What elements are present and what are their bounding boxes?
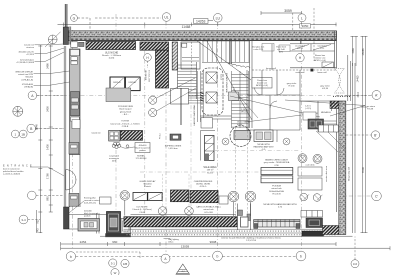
- svg-text:HANGING BACK WALL: HANGING BACK WALL: [193, 103, 196, 125]
- leader diagonals: [230, 89, 320, 122]
- svg-text:-5/20-1-: -5/20-1-: [199, 186, 207, 188]
- svg-text:+12,55 B: +12,55 B: [26, 54, 35, 56]
- stair railing verticals: [198, 71, 204, 122]
- top dimension line 11468: [58, 23, 337, 30]
- stair L-wall hatch vertical: [156, 50, 169, 88]
- svg-text:1430: 1430: [45, 144, 49, 150]
- svg-text:+12,54/08+12,60/08: +12,54/08+12,60/08: [16, 62, 35, 64]
- svg-text:9=1-5: 9=1-5: [207, 172, 213, 174]
- svg-text:400x400 anti-refl.: 400x400 anti-refl.: [19, 51, 35, 54]
- cloud x-box 1: [206, 72, 217, 83]
- vestibule side walls: [97, 213, 100, 234]
- grid row mid: [215, 150, 300, 152]
- svg-text:SALE AREA: SALE AREA: [203, 166, 217, 169]
- left dim ticks: [38, 46, 53, 233]
- svg-text:MEDAILLE: MEDAILLE: [321, 111, 332, 114]
- svg-text:895: 895: [45, 196, 49, 201]
- spotlight circle 2: [149, 88, 196, 117]
- grid line col 1: [72, 30, 74, 250]
- leader arrows to no-stone note: [285, 100, 365, 116]
- bottom-left column: [64, 207, 70, 229]
- svg-text:1760: 1760: [45, 173, 49, 179]
- svg-text:443: 443: [37, 228, 40, 233]
- wardrobe dark cluster: [308, 119, 345, 152]
- svg-text:+ safe 417.6: + safe 417.6: [253, 49, 263, 51]
- bubble b2: [213, 251, 223, 261]
- hanging cloud: [230, 126, 251, 147]
- grid line col 3: [217, 22, 219, 250]
- svg-text:ULS NICHE: ULS NICHE: [144, 70, 146, 81]
- landing room box: [171, 89, 189, 105]
- svg-text:AP4/5 (+0,4): AP4/5 (+0,4): [314, 59, 326, 62]
- curtain scallop: [228, 63, 250, 68]
- svg-text:1,010 dcm: 1,010 dcm: [168, 148, 178, 150]
- grid bubble C': [372, 191, 382, 201]
- pendant sphere 1: [120, 191, 130, 216]
- grid bubble UL: [162, 13, 171, 22]
- bubble A bottom: [161, 254, 170, 263]
- svg-text:former wall: former wall: [266, 68, 276, 70]
- svg-text:natural oak: natural oak: [271, 187, 282, 190]
- grid row C': [340, 195, 372, 197]
- storefront glass line: [64, 46, 66, 214]
- leader dashes from G: [78, 18, 91, 30]
- svg-text:5-1.5: 5-1.5: [320, 48, 324, 50]
- svg-text:(7/8 AL/B): (7/8 AL/B): [24, 86, 33, 89]
- svg-text:E N T R A N C E: E N T R A N C E: [3, 165, 32, 168]
- car door back wall text: [196, 206, 222, 214]
- glazing extra note: [19, 51, 35, 57]
- exterior facade note: [221, 236, 282, 242]
- svg-text:3059: 3059: [284, 9, 292, 13]
- svg-text:2450: 2450: [45, 106, 49, 112]
- entrance side element: [121, 219, 131, 234]
- chevrier text: [194, 181, 213, 188]
- grid row mid2: [140, 171, 296, 173]
- svg-text:(+1,15): (+1,15): [305, 108, 311, 110]
- svg-text:ULS NICHE: ULS NICHE: [105, 52, 119, 55]
- left party-wall column: [65, 4, 67, 28]
- grid bubble B': [346, 131, 380, 139]
- pendant sphere 3: [245, 191, 256, 216]
- grid row A: [37, 94, 373, 96]
- svg-text:501-05: 501-05: [297, 48, 303, 50]
- svg-text:(07/8-AL1-B): (07/8-AL1-B): [22, 78, 34, 81]
- facade dots row 2: [127, 234, 337, 236]
- svg-text:H 0,45 B: H 0,45 B: [272, 193, 281, 195]
- svg-text:WINDOW DISPLAY: WINDOW DISPLAY: [15, 71, 33, 74]
- shoe wall hatch row 1: [171, 190, 189, 202]
- svg-text:door in natural iron: door in natural iron: [3, 168, 20, 171]
- svg-text:grey niche: grey niche: [287, 82, 297, 85]
- svg-text:center wall: center wall: [295, 71, 305, 74]
- svg-text:C': C': [375, 195, 378, 199]
- cash counter boxes: [298, 167, 322, 176]
- svg-text:cash desk: cash desk: [305, 165, 314, 167]
- led lighting callout: [164, 238, 179, 244]
- svg-text:VE-03#: VE-03#: [241, 112, 249, 114]
- dash from b: [76, 255, 296, 257]
- corner hatch: [323, 226, 339, 235]
- svg-text:GLASS DISPLAY: GLASS DISPLAY: [139, 180, 156, 183]
- svg-text:drawer use: drawer use: [257, 82, 268, 85]
- svg-text:3-4: 3-4: [21, 218, 26, 222]
- fitting room texts: [237, 82, 331, 126]
- svg-text:1586: 1586: [352, 48, 355, 54]
- svg-text:14460: 14460: [357, 75, 360, 82]
- svg-text:40 lb: 40 lb: [112, 161, 117, 163]
- svg-text:0,0x0,0: 0,0x0,0: [220, 74, 222, 80]
- entrance note: [3, 165, 32, 176]
- left dim labels: [35, 63, 50, 233]
- pillar leader + existing pillar text: [69, 201, 84, 213]
- top wall bottom edge: [69, 40, 337, 42]
- svg-text:L: L: [301, 16, 303, 20]
- svg-text:H 3,38: H 3,38: [367, 109, 374, 111]
- glass display text: [139, 180, 156, 188]
- grid bubble H2: [296, 54, 304, 62]
- svg-text:grey suede - TESSILMODA: grey suede - TESSILMODA: [264, 161, 290, 164]
- svg-text:natural iron 8 PB: natural iron 8 PB: [18, 73, 34, 76]
- stair bottom rails: [200, 116, 232, 119]
- bottom facade dotted strip: [124, 229, 337, 233]
- svg-text:natural oak - 8 levels - L.700: natural oak - 8 levels - L.700mm: [110, 122, 140, 125]
- stair diagonals: [196, 40, 251, 80]
- dash leaders from left bubbles: [36, 95, 64, 195]
- niche column enclosure: [238, 204, 251, 231]
- bubble b: [66, 252, 75, 261]
- svg-text:LU: LU: [216, 16, 221, 20]
- niche end wall: [205, 136, 215, 161]
- landing rails horizontal: [181, 92, 204, 103]
- biases crew text: [264, 159, 290, 167]
- right wall speckled band: [339, 101, 346, 235]
- svg-text:B'stock: B'stock: [144, 185, 152, 188]
- svg-text:DISPLAY: DISPLAY: [129, 81, 138, 84]
- svg-text:natural iron: natural iron: [24, 43, 34, 46]
- strongbox notes row: [252, 46, 286, 54]
- svg-text:W: W: [114, 271, 117, 275]
- wall x272: [271, 44, 273, 70]
- hanging fixture gray: [234, 131, 250, 140]
- bubble 3-0: [351, 237, 359, 268]
- podium text: [269, 186, 285, 196]
- svg-text:11468: 11468: [182, 25, 191, 29]
- left dim outer line: [39, 45, 41, 233]
- svg-text:- B-5 -: - B-5 -: [123, 114, 129, 116]
- top right v-dim pair: [351, 36, 359, 66]
- grid line col 4: [301, 22, 303, 250]
- stair L-wall hatch horizontal: [140, 42, 169, 50]
- hanging icons: [112, 142, 135, 148]
- svg-text:natural iron: natural iron: [91, 132, 100, 135]
- former wall dashed: [252, 69, 337, 71]
- podium rect 1: [261, 168, 293, 175]
- stair flight 2 treads: [178, 62, 197, 99]
- svg-text:natural oak: natural oak: [203, 208, 214, 211]
- svg-text:AP/5: AP/5: [279, 50, 283, 53]
- svg-text:1510: 1510: [357, 92, 360, 98]
- revision cloud: [202, 68, 223, 115]
- grid bubble LU: [214, 13, 223, 22]
- flower box cells: [290, 44, 335, 68]
- svg-text:b: b: [70, 255, 72, 259]
- cash area spotlights: [298, 154, 322, 202]
- svg-text:laminated glass: laminated glass: [20, 59, 34, 62]
- svg-text:8940: 8940: [35, 124, 39, 130]
- svg-text:PS 0-4: PS 0-4: [160, 134, 162, 140]
- svg-text:13059: 13059: [181, 244, 190, 248]
- right entry door arcs: [335, 55, 351, 101]
- survey diamond: [13, 106, 23, 116]
- wardrobe boxes row: [319, 125, 339, 132]
- small fixture right of totem: [160, 134, 182, 141]
- svg-text:exterior facade filled with cl: exterior facade filled with cladding of …: [221, 236, 282, 239]
- svg-text:14263: 14263: [196, 19, 206, 23]
- sale wall edge: [180, 88, 181, 125]
- svg-text:3 levels L.1300: 3 levels L.1300: [148, 70, 150, 82]
- svg-text:BIASES CREW COACH: BIASES CREW COACH: [265, 159, 288, 162]
- laminated glass note: [16, 59, 35, 65]
- fitting room walls: [247, 70, 300, 130]
- svg-text:932: 932: [37, 219, 40, 224]
- totem fixture: [109, 130, 143, 141]
- stair wall vertical band: [172, 42, 177, 70]
- left dim inner line: [50, 45, 52, 212]
- bubbles 1 and 1B: [11, 130, 27, 138]
- bottom dim line 2: [61, 244, 390, 250]
- grid bubble B: [27, 124, 36, 133]
- svg-text:counter desk area: counter desk area: [325, 165, 328, 182]
- svg-text:podium: podium: [139, 150, 146, 152]
- svg-text:2480: 2480: [45, 63, 49, 69]
- lux niche bottom text: [132, 207, 152, 214]
- svg-text:glossy finish: glossy finish: [120, 111, 132, 113]
- entrance portal dark block: [107, 212, 121, 234]
- room divider: [301, 101, 337, 132]
- top wall tick finish: [71, 38, 336, 40]
- svg-text:C/18-B: C/18-B: [122, 126, 129, 128]
- svg-text:(+/-2001.2+4040/2): (+/-2001.2+4040/2): [3, 174, 20, 176]
- svg-text:H 3,30: H 3,30: [322, 88, 329, 90]
- niche hanging text: [254, 144, 275, 151]
- spot pair bottom center: [158, 207, 193, 216]
- svg-text:(C03): (C03): [109, 58, 115, 60]
- benchmark triangle: [176, 264, 190, 274]
- stair side wall: [230, 39, 232, 64]
- cloud x-box 2: [206, 92, 217, 103]
- svg-text:37C-8/8 B-4: 37C-8/8 B-4: [136, 158, 148, 160]
- svg-text:1/B: 1/B: [123, 262, 127, 266]
- grid bubble G: [71, 15, 78, 22]
- display cabinet pair top: [110, 77, 140, 91]
- svg-text:C/30: C/30: [274, 165, 279, 167]
- grid bubble A': [337, 91, 382, 100]
- right dim line pair: [361, 36, 368, 233]
- lift shaft room: [181, 42, 200, 215]
- partial dashed line x116: [115, 14, 117, 230]
- svg-text:Y-2,5/17-B: Y-2,5/17-B: [246, 240, 257, 242]
- svg-text:C/6-B: C/6-B: [139, 212, 145, 214]
- svg-text:139 m²: 139 m²: [207, 169, 214, 172]
- benchmark circle left of column: [45, 32, 61, 47]
- svg-text:TOTEM: TOTEM: [121, 121, 129, 123]
- grid row B left: [36, 128, 65, 130]
- grid bubble 3-4: [19, 215, 40, 224]
- svg-text:black lacquer: black lacquer: [119, 108, 132, 111]
- shoe wall hatch row 2: [190, 191, 218, 203]
- door threshold dots: [333, 96, 351, 98]
- right wall inner face: [336, 101, 338, 212]
- corner dark bar: [302, 231, 324, 236]
- fitting room door arcs: [255, 88, 285, 96]
- svg-text:3050: 3050: [302, 24, 309, 28]
- svg-text:-C-2-: -C-2-: [261, 149, 266, 151]
- entrance threshold dark bar: [106, 234, 131, 237]
- superglosses text: [165, 145, 182, 150]
- entrance door arcs: [66, 170, 77, 191]
- flower box room walls: [290, 31, 337, 68]
- svg-text:UL: UL: [164, 16, 168, 20]
- totem text: [110, 121, 140, 128]
- partial dashed line x144.8: [144, 24, 146, 215]
- glass display cases: [133, 193, 162, 201]
- svg-text:B': B': [374, 134, 377, 138]
- bottom dim line 1: [61, 240, 336, 246]
- svg-text:475/63-AL/B: 475/63-AL/B: [22, 83, 34, 86]
- moran podium text: [135, 143, 150, 153]
- svg-text:3-1: 3-1: [111, 261, 116, 265]
- pendant sphere 2: [228, 191, 239, 216]
- svg-text:4-5/+ B/6: 4-5/+ B/6: [204, 212, 213, 214]
- svg-text:b: b: [217, 255, 219, 259]
- podium rect 2: [261, 176, 293, 183]
- dashed stems through pendants: [236, 127, 248, 216]
- svg-text:A': A': [375, 94, 378, 98]
- lux niche text: [102, 52, 121, 60]
- label box 14263: [194, 19, 214, 24]
- small grid circles mid: [222, 138, 290, 145]
- bubbles 3-1 / 1B: [109, 259, 129, 275]
- bottom wall hatch band: [124, 217, 237, 227]
- svg-text:7000: 7000: [361, 166, 365, 173]
- svg-text:fitting lobby wall: fitting lobby wall: [348, 166, 351, 181]
- svg-text:2254: 2254: [80, 240, 87, 244]
- top wall concrete band: [69, 31, 337, 37]
- svg-text:former wall: former wall: [317, 71, 327, 74]
- svg-text:structure: structure: [26, 46, 35, 49]
- bottom edge line: [100, 235, 353, 237]
- svg-text:(C01-5/8-4.5): (C01-5/8-4.5): [84, 203, 96, 205]
- sale area text: [203, 166, 217, 175]
- grid bubble H: [144, 54, 152, 82]
- svg-text:grey niche: grey niche: [320, 85, 330, 88]
- entrance mat fixture: [78, 219, 100, 232]
- cash millwork row: [301, 211, 323, 228]
- svg-text:9608: 9608: [210, 240, 217, 244]
- svg-text:Power box: Power box: [257, 79, 268, 82]
- top right dimension 3059: [261, 8, 314, 61]
- svg-text:C85-1: C85-1: [168, 241, 174, 243]
- small cabinet left of lux niche: [71, 42, 78, 48]
- vestibule connector lines: [69, 215, 236, 230]
- right dim labels: [357, 48, 365, 173]
- grid bubble L top-right: [298, 14, 306, 22]
- podium view text: [118, 106, 134, 116]
- svg-text:G: G: [73, 17, 76, 21]
- svg-text:CAR DOOR BACK WALL: CAR DOOR BACK WALL: [196, 206, 222, 209]
- top wall inner gray band: [69, 37, 337, 41]
- grid bubble A: [28, 91, 37, 100]
- grid line col 2: [165, 22, 167, 253]
- svg-text:H 3,30: H 3,30: [288, 86, 295, 88]
- svg-text:PODIUM VIEW: PODIUM VIEW: [118, 106, 134, 108]
- svg-text:podium: podium: [84, 216, 91, 218]
- svg-text:no stone: no stone: [367, 105, 376, 108]
- svg-text:15086: 15086: [361, 48, 365, 56]
- svg-text:b: b: [300, 255, 302, 259]
- svg-text:PODIUM: PODIUM: [272, 186, 281, 188]
- window display note: [15, 71, 34, 82]
- site boundary double line: [353, 63, 356, 233]
- svg-text:1B: 1B: [21, 132, 25, 136]
- svg-text:Flower box: Flower box: [315, 54, 326, 57]
- small circle lower-left: [28, 191, 37, 200]
- power box callout: [252, 78, 272, 89]
- suspended mannequin text: [109, 156, 119, 163]
- small label box near entrance: [100, 197, 112, 204]
- bubble right partial: [296, 251, 306, 261]
- svg-text:HANGING BAR W/59: HANGING BAR W/59: [254, 145, 275, 148]
- svg-text:ESCAPE STAIRCASE: ESCAPE STAIRCASE: [225, 73, 228, 94]
- svg-text:0,70: 0,70: [278, 206, 283, 208]
- svg-text:DISPLAY: DISPLAY: [113, 81, 122, 84]
- natural iron note: [24, 43, 35, 49]
- niche hanging bar text above bench: [263, 203, 297, 209]
- stair treads top: [202, 41, 250, 63]
- wardrobe fixture: [254, 130, 273, 142]
- svg-text:exterior use: exterior use: [315, 56, 327, 59]
- svg-text:3-0: 3-0: [353, 262, 358, 266]
- window display column: [69, 49, 80, 207]
- ladder stair: [232, 66, 253, 128]
- lux niche hatch rect 1: [86, 42, 136, 50]
- gray podium under displays: [106, 88, 131, 102]
- spotlight circle 1: [149, 78, 195, 104]
- plt box: [229, 92, 239, 101]
- svg-text:960: 960: [112, 240, 117, 244]
- right wall hatch head: [330, 101, 339, 109]
- bench seat: [254, 220, 300, 229]
- svg-text:NICHE WITH HANGING BAR WITH: NICHE WITH HANGING BAR WITH: [263, 203, 297, 206]
